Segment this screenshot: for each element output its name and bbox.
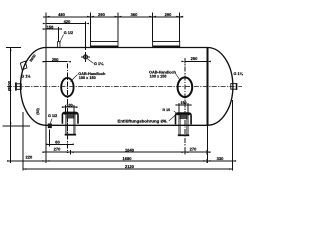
leader for crosshair label: [87, 59, 93, 64]
drain plug extension line: [49, 129, 51, 145]
manhole 2: [178, 77, 193, 97]
svg-text:(50): (50): [36, 108, 40, 115]
svg-text:100 x 150: 100 x 150: [79, 76, 96, 80]
reinforcing pad 1 on top: [91, 42, 119, 48]
svg-text:60: 60: [55, 139, 60, 144]
manhole 1: [61, 78, 73, 97]
svg-text:1640: 1640: [125, 147, 135, 152]
svg-text:G 1½: G 1½: [21, 74, 30, 78]
extension lines for top chain: [45, 12, 47, 47]
svg-text:420: 420: [64, 19, 71, 24]
svg-text:2120: 2120: [125, 164, 135, 169]
bottom row 4 overall dimension 2120: [23, 168, 233, 170]
drain plug G 1/2: [48, 124, 51, 128]
support leg 1 foot: [65, 134, 76, 136]
support leg 2 pad: [176, 113, 192, 124]
left tangent line: [45, 48, 47, 126]
svg-text:G 1¼: G 1¼: [94, 62, 104, 66]
dimension 420 line: [46, 23, 85, 25]
svg-text:480: 480: [58, 12, 65, 17]
bottom row 3 dimension chain 220 / 1680 / 330: [7, 160, 236, 162]
drain plug leader: [50, 119, 52, 125]
right dished head: [207, 48, 233, 126]
right tangent line: [206, 48, 208, 126]
support leg 2 body: [179, 114, 188, 135]
chain arrows: [46, 16, 50, 18]
manhole 2 leader: [176, 74, 180, 80]
svg-text:158: 158: [47, 24, 54, 29]
left head nozzle: [16, 84, 21, 90]
svg-text:250: 250: [191, 56, 198, 61]
svg-text:270: 270: [54, 147, 61, 152]
svg-text:290: 290: [165, 12, 172, 17]
support leg 1 body: [66, 114, 75, 135]
svg-text:R 15: R 15: [163, 108, 171, 112]
svg-text:290: 290: [98, 12, 105, 17]
svg-text:G 1/2: G 1/2: [48, 114, 57, 118]
svg-text:Ø800: Ø800: [7, 80, 12, 91]
bottom row 1 dimension 60: [47, 143, 74, 145]
tank shell bottom line: [46, 124, 207, 126]
dia 800 dimension line: [10, 48, 12, 127]
manhole 2 vertical centerline: [184, 58, 186, 153]
svg-text:270: 270: [190, 146, 197, 151]
dimension 158 line: [43, 28, 62, 30]
svg-text:G 1/2: G 1/2: [64, 31, 73, 35]
leg 1 width dimension 100: [62, 106, 78, 108]
bottom extension lines: [45, 125, 47, 163]
svg-text:250: 250: [52, 57, 59, 62]
svg-text:100: 100: [66, 103, 72, 107]
top dimension chain line: [43, 16, 183, 18]
svg-text:360: 360: [131, 12, 138, 17]
left dished head: [21, 48, 47, 126]
main horizontal centerline: [7, 85, 242, 87]
dimension 250 left (tangent to manhole 1): [43, 61, 68, 63]
bottom row 2 dimension chain 270 / 1640 / 270: [43, 151, 211, 153]
front nozzle crosshair G 1 1/4: [84, 55, 88, 59]
leg 2 width dimension 150: [176, 104, 192, 106]
svg-text:100 x 150: 100 x 150: [150, 75, 167, 79]
support leg 2 foot: [178, 134, 189, 136]
angled nozzle on left head: [20, 61, 27, 70]
svg-text:220: 220: [26, 155, 33, 160]
dimension 250 line: [185, 60, 208, 62]
vent hole leader (Entlueftungsbohrung): [169, 114, 177, 121]
leader for G 1/2 top label: [59, 35, 63, 44]
svg-text:1680: 1680: [123, 156, 133, 161]
svg-text:150: 150: [180, 101, 186, 105]
manhole 1 leader: [71, 75, 78, 82]
svg-text:330: 330: [217, 156, 224, 161]
reinforcing pad 2 on top: [153, 42, 180, 48]
support leg 1 pad: [62, 112, 78, 123]
R 15 leader: [174, 111, 177, 114]
top nozzle G 1/2 stub: [58, 42, 60, 48]
svg-text:G 1¼: G 1¼: [234, 72, 244, 76]
tank shell top line: [46, 47, 207, 49]
svg-text:Entlüftungsbohrung Ø6.: Entlüftungsbohrung Ø6.: [118, 118, 168, 123]
right head nozzle: [231, 84, 237, 90]
chain ticks: [45, 14, 47, 18]
dia 800 extension lines: [6, 47, 21, 49]
manhole 1 vertical centerline: [66, 64, 68, 153]
